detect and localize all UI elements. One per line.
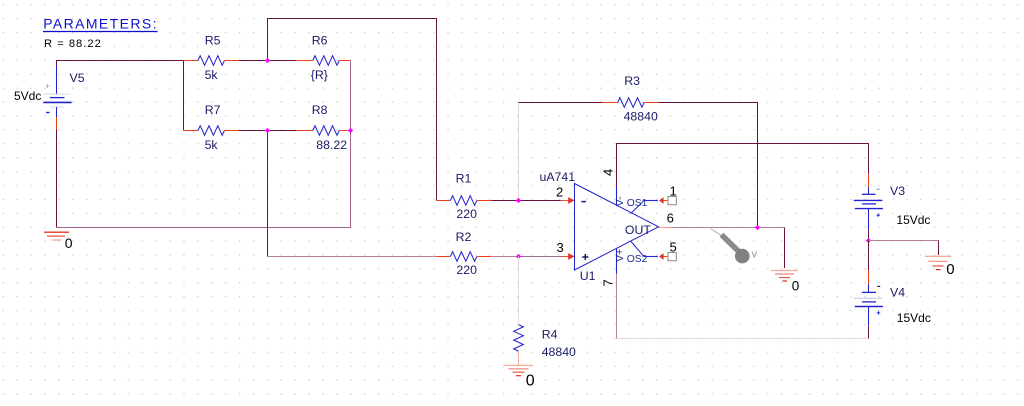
svg-text:5k: 5k: [205, 138, 219, 152]
ground 0 (output): [771, 271, 799, 294]
svg-text:R1: R1: [456, 172, 472, 186]
OS1 assembly: [631, 201, 644, 214]
svg-text:0: 0: [946, 261, 954, 278]
OUT pin stub: [659, 227, 672, 229]
V+ pin: [616, 249, 618, 274]
svg-text:15Vdc: 15Vdc: [897, 311, 931, 325]
voltage probe: [711, 229, 758, 264]
wire feedback vertical (pale) node E up to R3 row: [518, 103, 520, 201]
svg-text:4: 4: [600, 169, 615, 176]
junction node D: [348, 128, 353, 133]
svg-text:R8: R8: [312, 103, 328, 117]
PARAMETERS title: [43, 16, 158, 50]
resistor R3: [602, 74, 659, 123]
wire R7 to node C: [239, 130, 268, 132]
svg-text:R = 88.22: R = 88.22: [44, 38, 102, 50]
svg-text:5k: 5k: [205, 68, 219, 82]
wire R5 to node B: [239, 60, 268, 62]
V4 pin stub orange: [868, 270, 870, 284]
junction node C: [265, 128, 270, 133]
svg-text:5Vdc: 5Vdc: [14, 89, 41, 103]
svg-text:v: v: [752, 249, 758, 261]
V3 pin stub orange: [868, 174, 870, 187]
svg-text:88.22: 88.22: [316, 138, 347, 152]
wire bottom ground rail: [57, 227, 351, 229]
svg-text:R4: R4: [542, 328, 558, 342]
wire top-left rail from V5 to bridge: [57, 61, 184, 67]
OS2 assembly: [631, 241, 644, 256]
svg-text:OS2: OS2: [627, 254, 648, 265]
svg-text:R3: R3: [624, 74, 640, 88]
wire node F to pin3: [519, 256, 561, 258]
svg-text:OUT: OUT: [625, 223, 651, 237]
wire mid node to right ground: [869, 240, 939, 242]
wire V5 down to ground rail: [56, 130, 58, 228]
svg-text:7: 7: [600, 279, 615, 286]
svg-text:48840: 48840: [542, 345, 576, 359]
pin3 stub: [561, 256, 570, 258]
wire output row: [672, 227, 785, 229]
resistor R2: [437, 230, 492, 277]
V5 pin stub orange: [56, 117, 58, 130]
wire R3 row left: [519, 102, 602, 104]
junction node F: [516, 254, 521, 259]
svg-text:PARAMETERS:: PARAMETERS:: [43, 16, 158, 32]
wire branch vertical to R7: [183, 61, 185, 131]
svg-text:0: 0: [792, 279, 800, 294]
ground 0 (left, under V5): [44, 232, 73, 251]
resistor R6: [296, 34, 350, 83]
svg-text:R7: R7: [205, 103, 221, 117]
wire V3 to mid node: [868, 229, 870, 241]
wire pin3 long run (pale): [268, 256, 437, 258]
pin2 stub: [561, 200, 570, 202]
wire node F down to R4 (pale): [518, 257, 520, 325]
svg-text:V4: V4: [890, 285, 905, 299]
resistor R7: [184, 103, 239, 152]
svg-text:2: 2: [556, 185, 563, 200]
resistor R4: [514, 325, 576, 365]
wire output corner down to ground: [784, 228, 786, 269]
svg-text:R6: R6: [312, 34, 328, 48]
svg-text:1: 1: [670, 183, 677, 198]
ground 0 (under R4): [504, 365, 535, 389]
op-amp U1 uA741: [540, 169, 677, 287]
svg-text:V+: V+: [615, 249, 626, 262]
svg-text:0: 0: [526, 373, 535, 390]
wire node C down to pin3 row: [267, 131, 269, 257]
wire V- rail: [617, 144, 869, 187]
junction node E: [516, 198, 521, 203]
svg-text:15Vdc: 15Vdc: [896, 213, 930, 227]
wire R2 to node F (pale): [491, 256, 518, 258]
voltage source V5: [43, 66, 71, 117]
svg-text:0: 0: [65, 235, 73, 251]
wire top loop from node B to R1 column: [268, 19, 437, 201]
voltage source V3: [854, 184, 931, 229]
svg-text:uA741: uA741: [540, 170, 576, 184]
wire node E to pin2: [519, 200, 561, 202]
svg-text:220: 220: [456, 263, 477, 277]
wire R3 right and down to output: [658, 103, 757, 228]
wire mid node down to V4: [868, 241, 870, 271]
svg-text:{R}: {R}: [311, 68, 328, 82]
svg-text:V5: V5: [70, 71, 85, 85]
svg-text:6: 6: [667, 211, 674, 226]
wire R1 to node E: [491, 200, 518, 202]
resistor R1: [437, 172, 492, 221]
wire R6 right to R8 right: [350, 61, 352, 131]
pin2 arrow: [568, 197, 574, 204]
ground 0 (right): [925, 256, 955, 278]
junction mid supply node: [866, 238, 871, 243]
svg-text:U1: U1: [580, 269, 596, 283]
svg-text:48840: 48840: [624, 109, 658, 123]
wire node C to R8: [268, 130, 297, 132]
V- pin: [616, 187, 618, 205]
wire V+ rail: [868, 326, 870, 339]
svg-text:R5: R5: [205, 34, 221, 48]
junction node B: [265, 58, 270, 63]
minus mark: [581, 201, 586, 203]
junction output node: [755, 225, 760, 230]
resistor R8: [296, 103, 350, 152]
svg-text:OS1: OS1: [627, 198, 648, 209]
svg-text:3: 3: [557, 240, 564, 255]
svg-text:V3: V3: [890, 184, 905, 198]
plus mark: [582, 254, 588, 260]
resistor R5: [184, 34, 239, 83]
svg-text:220: 220: [456, 207, 477, 221]
svg-text:R2: R2: [456, 230, 472, 244]
wire node B to R6: [268, 60, 297, 62]
svg-text:5: 5: [670, 239, 677, 254]
svg-text:V-: V-: [615, 196, 626, 206]
pin3 arrow: [568, 253, 574, 260]
wire node D down to ground rail: [350, 131, 352, 228]
voltage source V4: [854, 284, 931, 325]
